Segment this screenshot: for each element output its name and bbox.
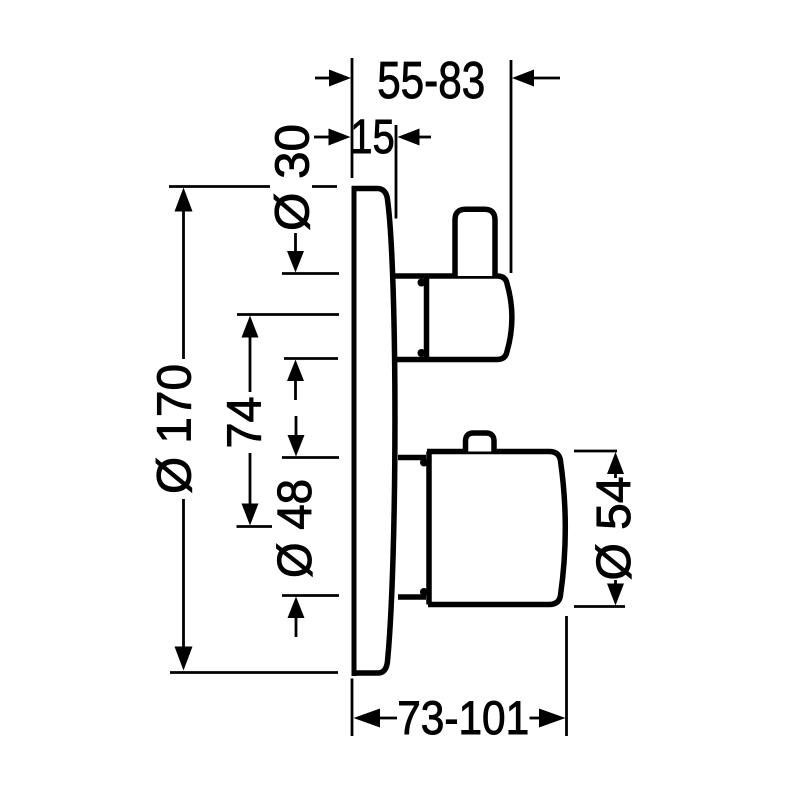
dimension 74 top boundary line bbox=[237, 313, 339, 316]
svg-text:Ø 170: Ø 170 bbox=[149, 364, 202, 494]
dimension 55-83 right arrow bbox=[533, 77, 560, 80]
svg-text:73-101: 73-101 bbox=[397, 691, 529, 744]
dimension 15 right extension line bbox=[395, 125, 398, 219]
dimension O170 down arrow bbox=[182, 499, 185, 650]
lower thermostat-handle stem top line bbox=[398, 455, 426, 461]
dimension O170 bottom boundary line bbox=[170, 671, 338, 674]
dimension 73-101 right arrow bbox=[530, 717, 545, 720]
dimension O54 up arrow bbox=[607, 452, 624, 474]
upper shutoff-handle stem + body outline bbox=[392, 276, 512, 360]
dimension 15 left arrow bbox=[314, 136, 329, 139]
dimension O48 down arrow bbox=[295, 416, 298, 435]
dimension 15 right arrow bbox=[419, 136, 431, 139]
dimension O30 bottom boundary line bbox=[284, 357, 338, 360]
lower handle body outline bbox=[427, 452, 565, 605]
dimension 55-83 right extension line bbox=[510, 60, 513, 273]
dimension 73-101 right extension line bbox=[565, 616, 568, 736]
svg-text:55-83: 55-83 bbox=[377, 51, 485, 109]
upper handle fillet bottom bbox=[418, 349, 426, 357]
dimension O48 bottom boundary line bbox=[282, 594, 339, 597]
dimension 55-83 left arrow bbox=[315, 77, 330, 80]
dimension O170 top boundary line segment b bbox=[312, 185, 337, 188]
dimension O170 top boundary line segment a bbox=[169, 185, 270, 188]
dimension O54 down arrow bbox=[614, 580, 617, 584]
svg-text:74: 74 bbox=[219, 397, 272, 449]
upper handle fillet top bbox=[418, 279, 426, 287]
plate back edge (wall line) bbox=[352, 186, 357, 676]
svg-text:Ø 54: Ø 54 bbox=[588, 477, 641, 581]
upper handle grip knob bbox=[455, 209, 495, 276]
lower handle fillet bottom bbox=[420, 588, 428, 596]
dimension O170 up arrow bbox=[175, 188, 193, 212]
dimension O54 top boundary line bbox=[574, 450, 617, 453]
lower handle top nub bbox=[466, 433, 495, 452]
dimension O30 down arrow bbox=[294, 233, 297, 253]
lower thermostat-handle stem bottom line bbox=[398, 594, 426, 600]
escutcheon plate (side profile) bbox=[352, 189, 395, 674]
dimension O54 bottom boundary line bbox=[574, 605, 625, 608]
dimension O48 up arrow bbox=[295, 618, 298, 637]
lower handle body left edge bbox=[426, 452, 432, 605]
svg-text:Ø 30: Ø 30 bbox=[267, 124, 320, 231]
dimension O30 top boundary line bbox=[282, 272, 339, 275]
svg-text:Ø 48: Ø 48 bbox=[269, 479, 322, 578]
lower handle fillet top bbox=[420, 459, 428, 467]
dimension 73-101 left arrow bbox=[354, 709, 381, 728]
dimension 55-83 left extension line bbox=[351, 58, 354, 178]
upper handle body left edge bbox=[424, 274, 430, 361]
dimension 73-101 left extension line bbox=[351, 679, 354, 737]
dimension 74 down arrow bbox=[249, 453, 252, 504]
dimension 74 bottom boundary line bbox=[237, 525, 273, 528]
svg-text:15: 15 bbox=[350, 111, 395, 164]
dimension O48 top boundary line bbox=[282, 456, 339, 459]
dimension 74 up arrow bbox=[242, 316, 259, 338]
dimension O30 up arrow bbox=[294, 381, 297, 400]
